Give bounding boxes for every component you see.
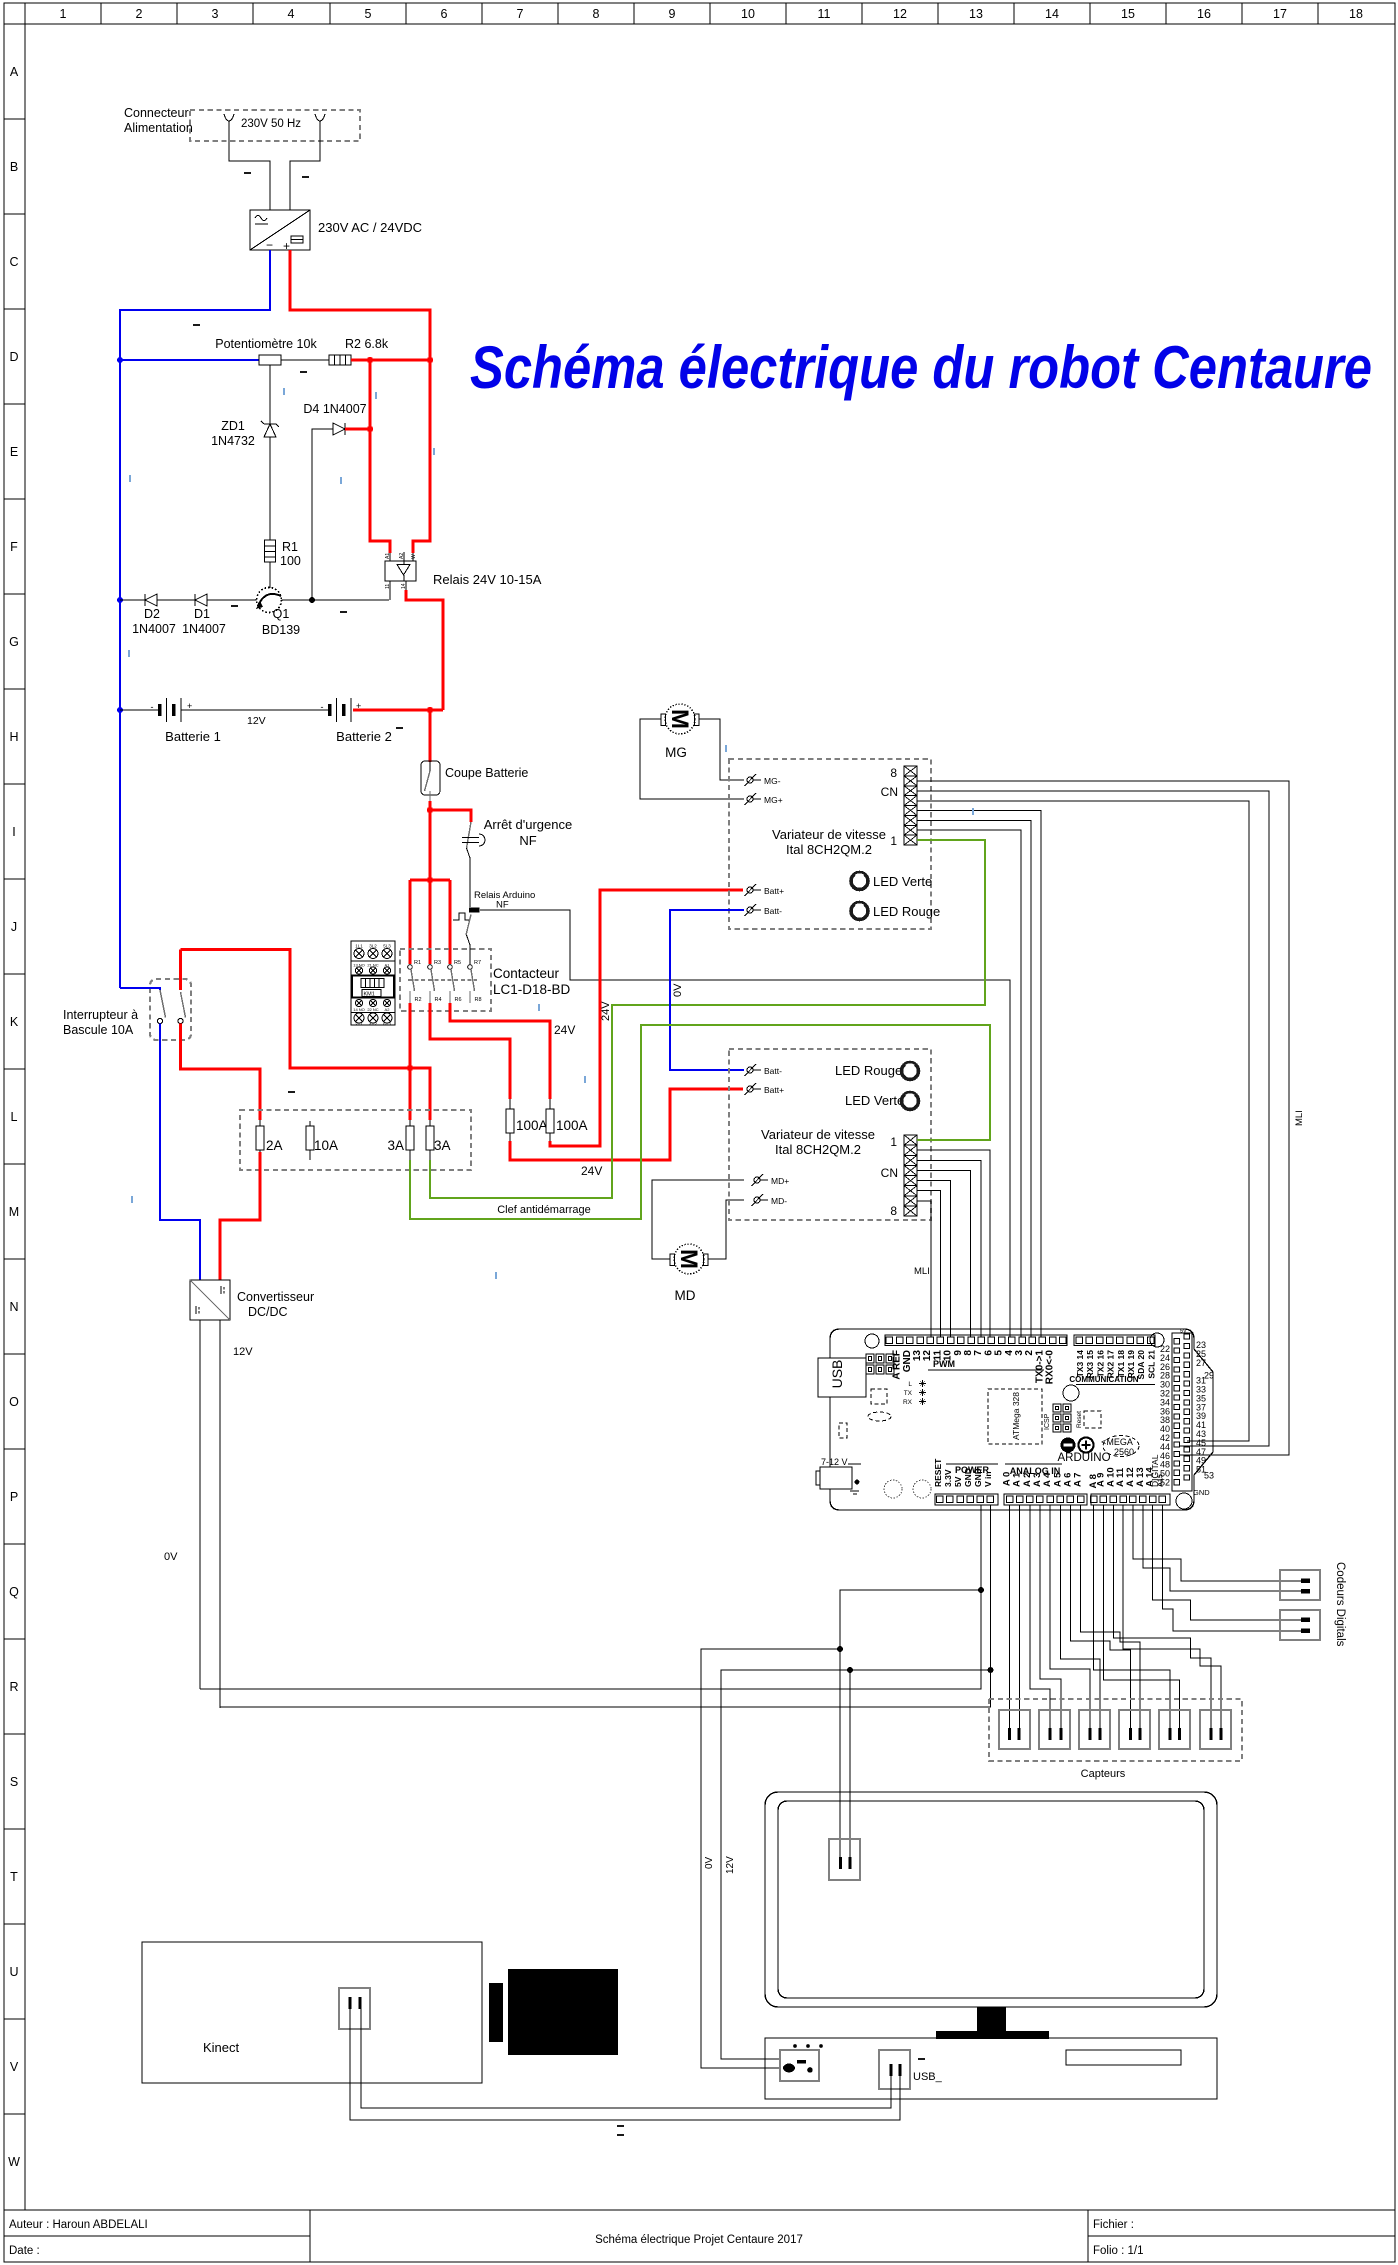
svg-text:COMMUNICATION: COMMUNICATION [1069, 1375, 1138, 1384]
svg-text:MLI: MLI [1294, 1110, 1305, 1126]
switch S3 Arret d urgence NF [462, 817, 572, 848]
svg-text:V in: V in [983, 1471, 993, 1487]
svg-text:Capteurs: Capteurs [1081, 1768, 1126, 1780]
svg-text:RESET: RESET [933, 1458, 943, 1487]
wire red feed poles [410, 879, 450, 882]
wire A12 to codeur1 [1133, 1505, 1301, 1581]
svg-text:13: 13 [969, 7, 983, 21]
variateur U4 box [729, 1049, 931, 1220]
svg-text:BD139: BD139 [262, 623, 300, 637]
wire red branch to arret [430, 810, 471, 822]
svg-text:1: 1 [890, 834, 897, 848]
node 24V at R2 [367, 357, 373, 363]
svg-text:-: - [151, 702, 154, 712]
wire A2 to capteur2 [1030, 1505, 1050, 1728]
svg-text:S: S [10, 1775, 18, 1789]
wire A6 to capteur4 [1071, 1505, 1131, 1728]
svg-text:KM1: KM1 [364, 992, 375, 998]
svg-text:12: 12 [893, 7, 907, 21]
motor MG [661, 704, 699, 760]
svg-text:MD-: MD- [771, 1196, 787, 1206]
svg-text:Batt-: Batt- [764, 906, 782, 916]
svg-text:RX: RX [903, 1399, 913, 1406]
svg-text:W: W [8, 2155, 20, 2169]
camera lens block [489, 1983, 503, 2042]
wire v2 cn6 to arduino [917, 1191, 940, 1337]
svg-text:MG-: MG- [764, 776, 781, 786]
svg-text:Reset: Reset [1076, 1411, 1083, 1428]
svg-text:W: W [411, 554, 417, 559]
svg-text:8: 8 [890, 766, 897, 780]
svg-text:24V: 24V [554, 1023, 575, 1037]
svg-text:USB: USB [829, 1360, 845, 1389]
LED Verte v1 [851, 872, 933, 890]
node 24V fuse row [407, 1065, 413, 1071]
wire v1 cn2 to arduino [917, 830, 1021, 1337]
svg-text:R6: R6 [455, 997, 462, 1003]
pin Batt+ v1 [745, 884, 785, 896]
wire diode row left [120, 599, 145, 601]
svg-text:9: 9 [669, 7, 676, 21]
capteur 2 [1039, 1710, 1070, 1749]
svg-text:A 7: A 7 [1073, 1473, 1084, 1487]
svg-text:Q: Q [9, 1585, 19, 1599]
transformer T1 230V AC / 24VDC [250, 210, 422, 253]
svg-text:4T2: 4T2 [369, 1021, 377, 1026]
svg-text:TX2 16: TX2 16 [1095, 1350, 1105, 1378]
fuse F6 100A [546, 1099, 588, 1141]
svg-text:R1: R1 [282, 540, 298, 554]
svg-text:TX: TX [904, 1390, 913, 1397]
svg-text:R7: R7 [474, 960, 481, 966]
arduino ICSP header [1044, 1404, 1071, 1432]
wire node to D4 [312, 429, 333, 600]
svg-text:A1: A1 [385, 553, 391, 559]
svg-text:G: G [9, 635, 19, 649]
kinect box [142, 1942, 482, 2083]
svg-text:L: L [11, 1110, 18, 1124]
svg-text:SCL 21: SCL 21 [1146, 1350, 1156, 1379]
svg-text:NF: NF [519, 833, 536, 848]
svg-text:14: 14 [401, 583, 407, 589]
wire R1 to Q1 [269, 562, 271, 588]
capteur 1 [999, 1710, 1030, 1749]
wire red F5 to variateur2 Batt+ [510, 1089, 743, 1160]
svg-text:U: U [9, 1965, 18, 1979]
svg-text:2A: 2A [266, 1138, 283, 1153]
svg-text:18: 18 [1349, 7, 1363, 21]
connector J1 Connecteur Alimentation [124, 106, 360, 141]
svg-text:C: C [9, 255, 18, 269]
wire red pole R5 [449, 880, 452, 964]
svg-text:2560: 2560 [1114, 1447, 1134, 1457]
switch S2 Coupe Batterie [421, 761, 528, 801]
wire green v1 cn1 to fuse F4 [430, 840, 985, 1198]
svg-text:−: − [266, 238, 273, 252]
wire A0 to capteur1 [1009, 1505, 1011, 1728]
svg-text:E: E [10, 445, 18, 459]
svg-text:100A: 100A [516, 1118, 548, 1133]
svg-text:12V: 12V [247, 715, 266, 727]
arduino ANALOG IN headers [1002, 1464, 1171, 1505]
wire 12V to monitor [850, 1670, 991, 1857]
wire A15 to codeur2 [1162, 1505, 1301, 1631]
wire red R2 out [409, 1003, 412, 1120]
svg-text:TX1 18: TX1 18 [1116, 1350, 1126, 1378]
computer power connector [780, 2044, 823, 2081]
zener ZD1 1N4732 [211, 419, 279, 448]
wire MD+ to motor [652, 1180, 744, 1259]
contact R1-R2 [408, 960, 422, 1003]
svg-text:2: 2 [136, 7, 143, 21]
svg-text:11: 11 [818, 7, 831, 21]
svg-text:LC1-D18-BD: LC1-D18-BD [493, 982, 571, 997]
wire arret to relais arduino [467, 848, 471, 907]
svg-text:5V: 5V [953, 1476, 963, 1487]
svg-text:10A: 10A [314, 1138, 338, 1153]
svg-text:0V: 0V [164, 1551, 178, 1563]
pin Batt- v1 [745, 904, 783, 916]
node gnd [978, 1587, 984, 1593]
svg-text:M: M [9, 1205, 19, 1219]
computer drive slot [1066, 2050, 1181, 2065]
capteur 3 [1079, 1710, 1110, 1749]
wire 0V gnd chain [200, 1505, 981, 1689]
svg-text:LED Rouge: LED Rouge [835, 1063, 902, 1078]
svg-text:2T1: 2T1 [355, 1021, 363, 1026]
svg-text:Batt-: Batt- [764, 1066, 782, 1076]
svg-text:I: I [12, 825, 15, 839]
svg-text:ARDUINO: ARDUINO [1057, 1452, 1110, 1464]
wire red F6 to variateur1 Batt+ [550, 890, 743, 1146]
relay contact K2 Relais Arduino NF [453, 890, 535, 964]
monitor tablet [765, 1792, 1217, 2039]
svg-text:R4: R4 [435, 997, 442, 1003]
wire blue to potentiometer [120, 359, 259, 361]
title block [4, 2210, 1395, 2262]
wire red switch pole feed [181, 950, 261, 1121]
wire red branch to relay A1 [370, 360, 390, 553]
pin MG- [745, 774, 781, 786]
svg-text:3.3V: 3.3V [943, 1469, 953, 1487]
svg-text:MLI: MLI [914, 1266, 930, 1277]
svg-text:P: P [10, 1490, 18, 1504]
monitor power connector [829, 1839, 860, 1880]
wire D2 to D1 [157, 599, 195, 601]
node 12V [988, 1667, 994, 1673]
camera black box [508, 1969, 618, 2055]
resistor R2 6.8k [329, 337, 389, 365]
wire v2 cn7 to arduino [917, 1201, 931, 1337]
arduino DIGITAL double header [1150, 1329, 1214, 1498]
svg-text:7-12 V: 7-12 V [821, 1457, 848, 1467]
node blue battery row [117, 707, 123, 713]
wire USB kinect upper [361, 2009, 891, 2108]
arduino digital header row [885, 1335, 1067, 1384]
row letter band [4, 65, 25, 2169]
svg-text:16: 16 [1197, 7, 1211, 21]
svg-text:Batt+: Batt+ [764, 886, 784, 896]
wire A14 to codeur2 [1153, 1505, 1301, 1620]
svg-text:Schéma électrique Projet Centa: Schéma électrique Projet Centaure 2017 [595, 2234, 803, 2246]
svg-text:10: 10 [741, 7, 755, 21]
wire v2 cn4 to arduino [917, 1171, 971, 1338]
wire black relais arduino to arduino pin4 [480, 910, 1010, 1337]
svg-text:Arrêt d'urgence: Arrêt d'urgence [484, 817, 572, 832]
contact R5-R6 [448, 960, 462, 1003]
wire pot wiper to zener [269, 365, 271, 424]
kinect connector [339, 1988, 370, 2029]
svg-text:DIGITAL: DIGITAL [1150, 1454, 1160, 1487]
svg-text:8: 8 [593, 7, 600, 21]
svg-text:K: K [10, 1015, 19, 1029]
arduino minus plus marks [1061, 1438, 1076, 1453]
LED Verte v2 [845, 1092, 919, 1110]
svg-text:7: 7 [517, 7, 524, 21]
fuse F2 10A [306, 1121, 338, 1160]
node 24V below coupe [427, 807, 433, 813]
svg-text:17: 17 [1273, 7, 1287, 21]
arduino reset button [1076, 1411, 1101, 1428]
arduino misc dashed pads [871, 1389, 887, 1404]
arduino leds L TX RX [903, 1380, 926, 1406]
svg-text:H: H [9, 730, 18, 744]
wire blue into switch [120, 988, 160, 990]
svg-text:B: B [10, 160, 18, 174]
svg-text:3A: 3A [434, 1138, 451, 1153]
diode D4 1N4007 [303, 402, 366, 435]
wire A9 to capteur5 [1103, 1505, 1179, 1728]
svg-text:6T3: 6T3 [383, 1021, 391, 1026]
svg-text:Interrupteur à: Interrupteur à [63, 1008, 138, 1022]
wire green v2 cn1 to fuse F3 [410, 1025, 990, 1219]
wire D1 to Q1 [207, 599, 257, 601]
svg-text:D4 1N4007: D4 1N4007 [303, 402, 366, 416]
svg-text:3: 3 [212, 7, 219, 21]
svg-text:R1: R1 [414, 960, 421, 966]
svg-text:Kinect: Kinect [203, 2040, 240, 2055]
contact R3-R4 [428, 960, 442, 1003]
svg-text:DC/DC: DC/DC [248, 1305, 288, 1319]
wire blue v1 Batt- to v2 Batt- [670, 910, 744, 1070]
wire A10 to capteur6 [1113, 1505, 1211, 1728]
svg-text:<MEGA: <MEGA [1101, 1437, 1133, 1447]
svg-text:1: 1 [890, 1135, 897, 1149]
wire MD- to motor [708, 1200, 744, 1259]
wire red pole R1 [409, 880, 412, 964]
svg-text:CN: CN [881, 785, 898, 799]
wire 0V to monitor [840, 1590, 981, 1857]
svg-text:Q1: Q1 [273, 607, 290, 621]
svg-text:ZD1: ZD1 [221, 419, 245, 433]
svg-text:Clef antidémarrage: Clef antidémarrage [497, 1204, 591, 1216]
computer case [765, 2038, 1217, 2099]
node 12V monitor branch [847, 1667, 853, 1673]
svg-text:A2: A2 [385, 1007, 391, 1012]
wire 0V to computer [701, 1649, 840, 2068]
svg-text:Variateur de vitesse: Variateur de vitesse [772, 827, 886, 842]
wire 12V to computer [721, 1670, 850, 2059]
svg-text:4: 4 [288, 7, 295, 21]
svg-text:Coupe Batterie: Coupe Batterie [445, 766, 528, 780]
svg-text:Connecteur: Connecteur [124, 106, 189, 120]
wire A8 to capteur5 [1094, 1505, 1170, 1728]
wire A5 to capteur3 [1060, 1505, 1100, 1728]
arduino jumper pads [866, 1354, 894, 1374]
svg-text:-: - [321, 702, 324, 712]
codeur 1 [1280, 1570, 1320, 1600]
LED Rouge v2 [835, 1062, 919, 1080]
battery B1 Batterie 1 [151, 698, 221, 744]
svg-text:MG+: MG+ [764, 795, 783, 805]
node base row [309, 597, 315, 603]
arduino MEGA 2560 mark [1101, 1436, 1139, 1458]
svg-text:A2: A2 [399, 553, 405, 559]
svg-text:GND: GND [973, 1468, 983, 1487]
wire A4 to capteur3 [1050, 1505, 1090, 1728]
LED Rouge v1 [851, 902, 941, 920]
svg-text:MD: MD [675, 1288, 696, 1303]
node 24V battery [427, 707, 433, 713]
svg-text:Codeurs Digitals: Codeurs Digitals [1334, 1562, 1346, 1647]
wire red D4 to rail [345, 428, 370, 431]
capteur 4 [1119, 1710, 1150, 1749]
wire A13 to codeur1 [1143, 1505, 1301, 1591]
svg-text:Relais 24V 10-15A: Relais 24V 10-15A [433, 572, 542, 587]
wire blue switch to converter [160, 1024, 200, 1280]
motor MD [670, 1244, 708, 1303]
svg-text:6: 6 [441, 7, 448, 21]
arduino mounting holes [865, 1334, 879, 1348]
svg-text:L: L [908, 1381, 912, 1388]
node 24V at D4 [367, 426, 373, 432]
svg-text:8: 8 [890, 1204, 897, 1218]
svg-text:J: J [11, 920, 17, 934]
wire 12V rail converter down [219, 1320, 221, 1708]
switch S1 Interrupteur a Bascule 10A [63, 979, 191, 1040]
wire 12V vin chain [220, 1505, 991, 1707]
svg-text:R5: R5 [454, 960, 461, 966]
svg-text:100A: 100A [556, 1118, 588, 1133]
wire v2 cn5 to arduino [917, 1181, 951, 1337]
svg-text:Variateur de vitesse: Variateur de vitesse [761, 1127, 875, 1142]
wire N from connector to transformer [290, 121, 320, 210]
svg-text:LED Verte: LED Verte [845, 1093, 904, 1108]
capteur 6 [1200, 1710, 1231, 1749]
connector CN v2 [881, 1135, 917, 1218]
arduino power jack 7-12V [816, 1457, 861, 1494]
svg-text:TX3 14: TX3 14 [1075, 1350, 1085, 1378]
wire red R6 out [450, 1003, 550, 1099]
wire MG to MG- [699, 719, 744, 780]
fuse F1 2A [256, 1120, 283, 1153]
svg-text:R8: R8 [475, 997, 482, 1003]
wire v1 cn7 to pin44 [917, 781, 1289, 1455]
svg-text:14 NO: 14 NO [353, 1007, 365, 1012]
svg-text:14: 14 [1045, 7, 1059, 21]
svg-text:Auteur : Haroun ABDELALI: Auteur : Haroun ABDELALI [9, 2219, 148, 2231]
node blue at diode row [117, 597, 123, 603]
svg-text:100: 100 [280, 554, 301, 568]
svg-text:M: M [666, 709, 693, 729]
wire red battery to coupe [353, 709, 443, 712]
wire v1 cn3 to arduino [917, 820, 1031, 1337]
svg-text:Batt+: Batt+ [764, 1085, 784, 1095]
svg-text:Potentiomètre 10k: Potentiomètre 10k [215, 337, 317, 351]
svg-text:230V 50 Hz: 230V 50 Hz [241, 118, 301, 130]
wire 0V blue rail from transformer [120, 250, 270, 988]
faint blue ticks [128, 388, 974, 1279]
column number band [60, 3, 1363, 24]
battery B2 Batterie 2 [321, 698, 404, 744]
resistor R1 100 [265, 540, 301, 568]
svg-text:27: 27 [1196, 1358, 1206, 1368]
wire red below coupe [429, 801, 432, 880]
diode D1 1N4007 [182, 594, 226, 636]
svg-text:NF: NF [496, 900, 509, 911]
contact R7-R8 [468, 960, 482, 1003]
svg-text:11: 11 [385, 584, 391, 589]
wire USB kinect lower [350, 2009, 900, 2120]
svg-text:MG: MG [665, 745, 687, 760]
svg-text:Schéma électrique du robot Cen: Schéma électrique du robot Centaure [470, 334, 1372, 401]
wire v1 cn4 to arduino [917, 811, 1041, 1338]
arduino ATMega 328 [988, 1389, 1042, 1444]
svg-text:0V: 0V [704, 1856, 715, 1869]
svg-text:ATMega 328: ATMega 328 [1011, 1392, 1021, 1440]
wire MG to MG+ [640, 719, 744, 799]
svg-text:R: R [9, 1680, 18, 1694]
svg-text:1L1: 1L1 [355, 944, 363, 949]
diode D2 1N4007 [132, 594, 176, 636]
wire A3 to capteur2 [1040, 1505, 1061, 1728]
svg-text:R2 6.8k: R2 6.8k [345, 337, 389, 351]
wire 0V rail converter down [199, 1320, 201, 1689]
svg-text:53: 53 [1204, 1471, 1214, 1481]
arduino communication header row [1069, 1335, 1156, 1385]
fuse F3 3A [387, 1120, 414, 1160]
svg-text:T: T [10, 1870, 18, 1884]
svg-text:GND: GND [1193, 1488, 1210, 1497]
svg-text:A: A [10, 65, 19, 79]
svg-text:M: M [675, 1249, 702, 1269]
svg-text:15: 15 [1121, 7, 1135, 21]
svg-text:0V: 0V [672, 983, 684, 997]
svg-text:5: 5 [365, 7, 372, 21]
fuse box dashed [240, 1110, 471, 1170]
arduino USB connector [818, 1358, 866, 1397]
pin MG+ [745, 793, 783, 805]
svg-text:24V: 24V [600, 1001, 612, 1021]
wire red R4 out [430, 1003, 510, 1099]
wire A7 to capteur4 [1081, 1505, 1140, 1728]
svg-text:LED Verte: LED Verte [873, 874, 932, 889]
wire red contactor feed [429, 810, 432, 964]
potentiometer RV1 10k [215, 337, 317, 373]
codeur 2 [1280, 1610, 1320, 1640]
wire A11 to capteur6 [1123, 1505, 1221, 1728]
svg-text:5L3: 5L3 [383, 944, 391, 949]
svg-text:24V: 24V [581, 1164, 602, 1178]
dash marks bottom [617, 2125, 624, 2127]
contactor KM1 physical [351, 941, 395, 1026]
wire L from connector to transformer [229, 121, 270, 210]
svg-text:F: F [10, 540, 18, 554]
svg-text:1: 1 [60, 7, 67, 21]
svg-text:Folio : 1/1: Folio : 1/1 [1093, 2245, 1144, 2257]
fuse F5 100A [506, 1099, 548, 1141]
capteurs box [989, 1699, 1242, 1761]
